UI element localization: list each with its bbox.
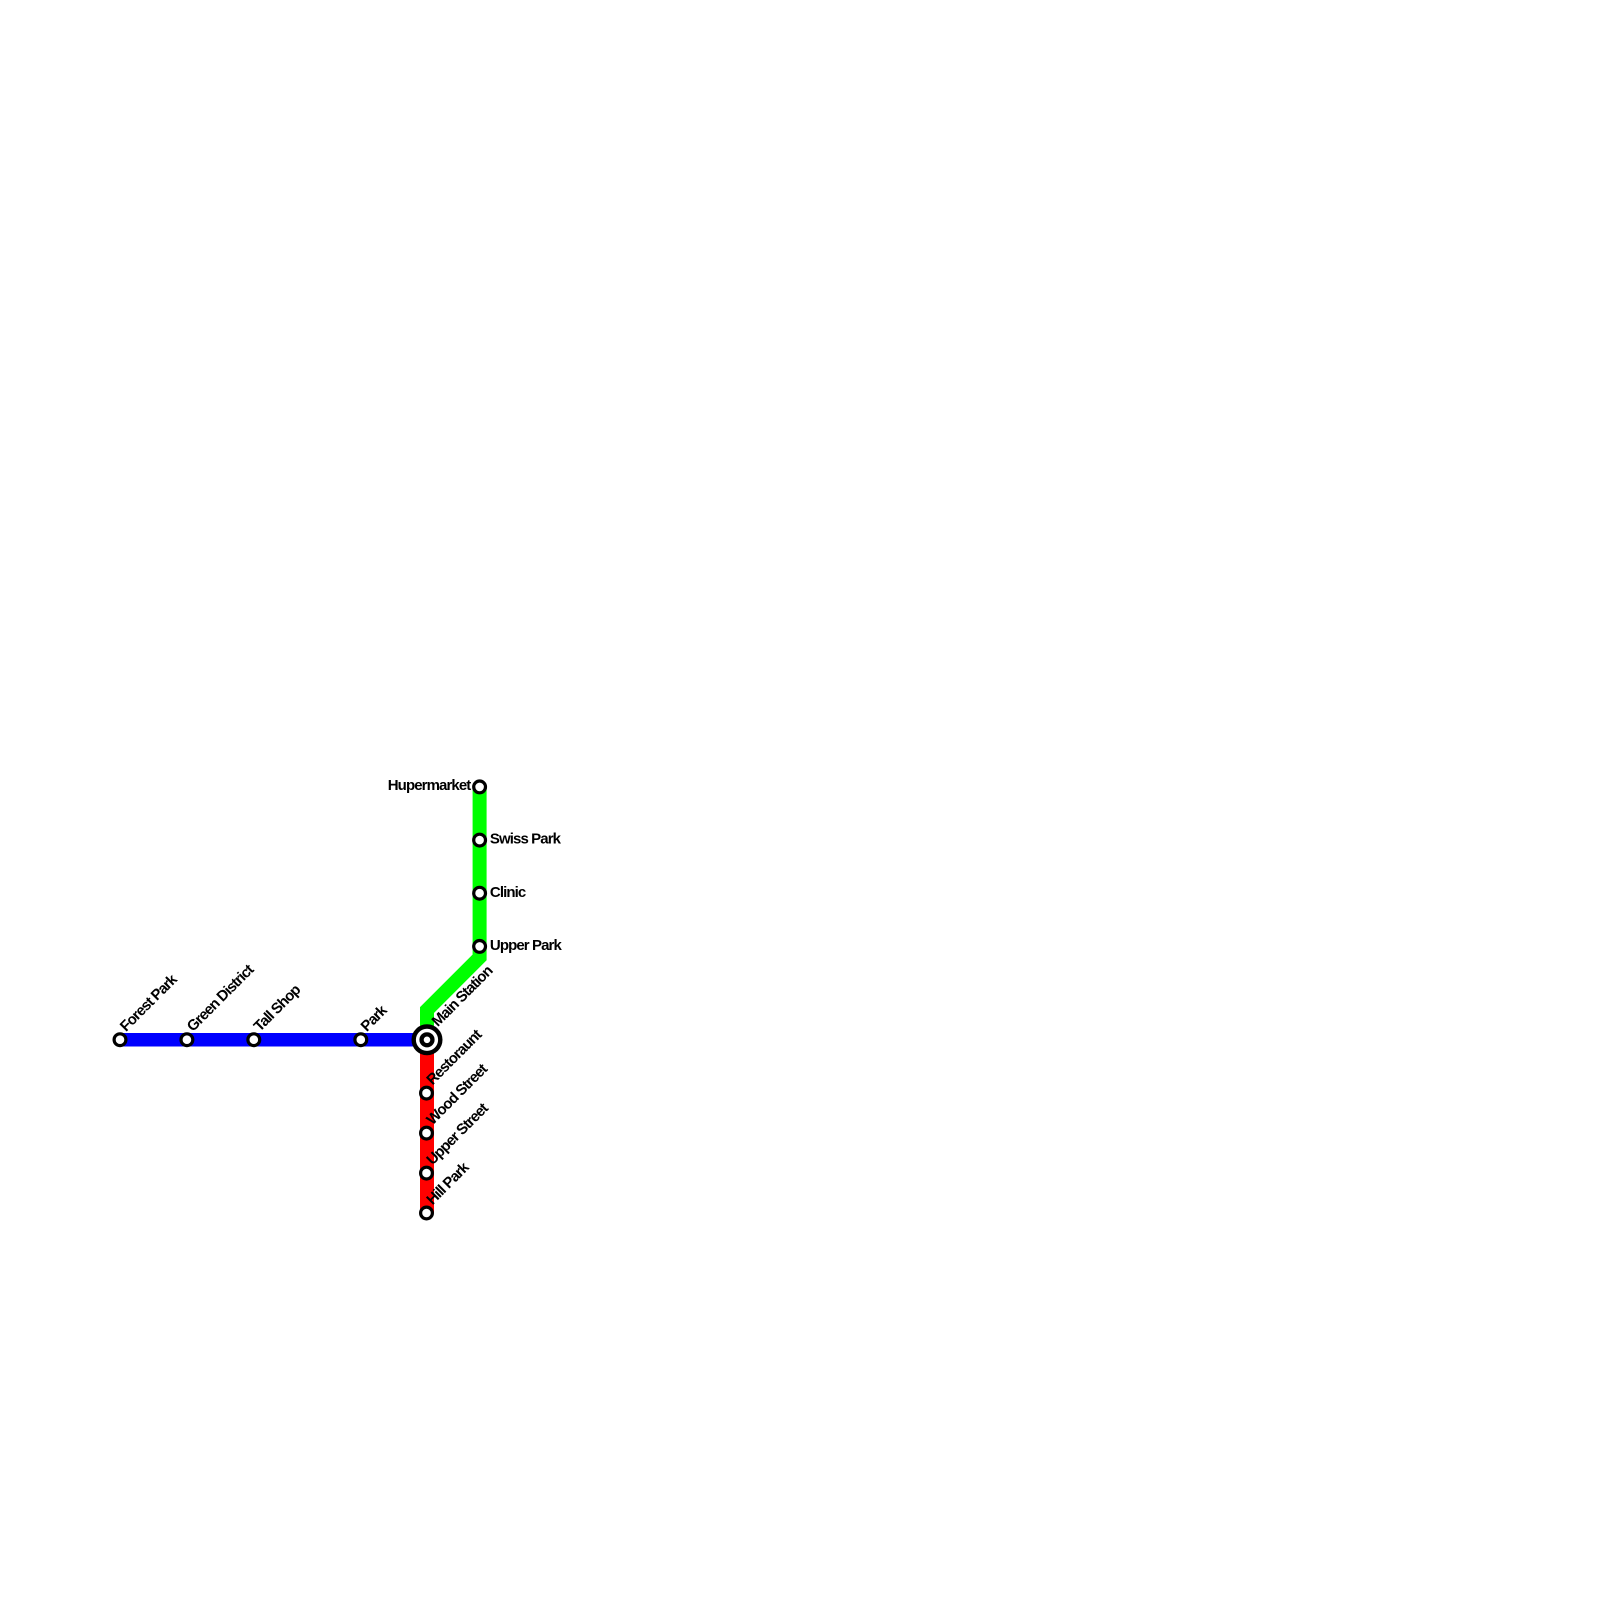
station Green District [181, 1034, 193, 1046]
svg-text:Clinic: Clinic [490, 884, 526, 901]
station Forest Park [114, 1034, 126, 1046]
station Wood Street [421, 1127, 433, 1139]
station Park [355, 1034, 367, 1046]
station Hupermarket [474, 781, 486, 793]
station Upper Street [421, 1167, 433, 1179]
station Upper Park [474, 941, 486, 953]
green line (Main Station - Hupermarket) [427, 787, 480, 1040]
svg-text:Hupermarket: Hupermarket [388, 777, 472, 794]
svg-text:Swiss Park: Swiss Park [490, 831, 562, 848]
interchange Main Station [414, 1027, 441, 1054]
station Restoraunt [421, 1087, 433, 1099]
station Clinic [474, 887, 486, 899]
blue line (Forest Park - Main Station) [120, 1033, 427, 1047]
station Swiss Park [474, 834, 486, 846]
station Hill Park [421, 1207, 433, 1219]
station Tall Shop [248, 1034, 260, 1046]
svg-text:Upper Park: Upper Park [490, 937, 563, 954]
red line (Main Station - Hill Park) [420, 1040, 434, 1213]
